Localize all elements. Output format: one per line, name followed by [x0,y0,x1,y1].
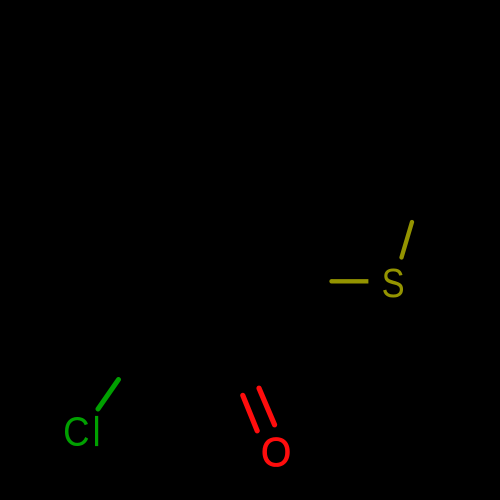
svg-text:C: C [63,410,89,455]
node Cl: chlorine atom label letter l (vertical bar) [95,416,98,446]
wire: double bond C1=O line 2 (oxygen half, red) [259,388,275,425]
svg-text:S: S [382,261,405,306]
svg-text:O: O [261,430,291,475]
wire: bond Cl-CH2 (chlorine half, green) [98,380,119,410]
wire: double bond C1=O line 1 (oxygen half, red) [243,395,257,430]
wire: bond S-C1 (sulfur half, olive, horizontal; round midpoint tip at left, flat clipped end at right) [332,279,369,283]
wire: bond S-CH3 (sulfur half, olive, diagonal) [402,222,413,258]
